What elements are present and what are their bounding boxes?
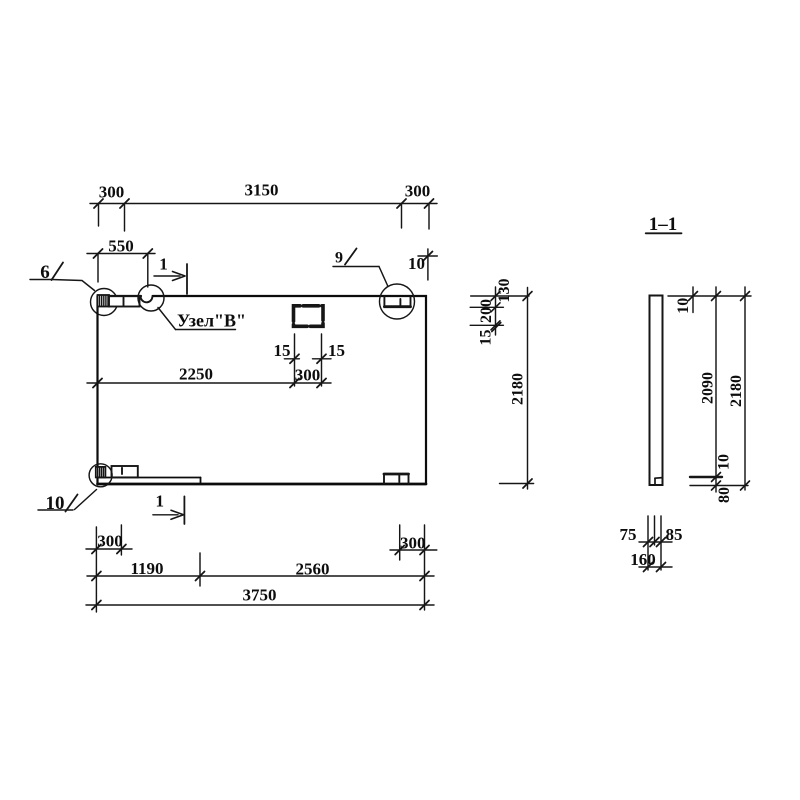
dimension 10 (top right)	[418, 249, 437, 280]
section bottom extension lines 75/85/160	[648, 516, 661, 570]
svg-text:2090: 2090	[700, 372, 717, 404]
svg-text:3150: 3150	[245, 181, 279, 200]
dimension 550	[87, 249, 155, 287]
right side extension lines 130/200/15	[470, 287, 529, 335]
svg-text:2560: 2560	[296, 560, 330, 579]
svg-text:300: 300	[405, 182, 431, 201]
bottom-left embed plate	[112, 466, 138, 477]
svg-text:1: 1	[159, 255, 168, 274]
panel step riser	[200, 478, 202, 485]
section dim line 160	[639, 563, 672, 572]
svg-text:10: 10	[408, 254, 425, 273]
svg-text:300: 300	[400, 534, 426, 553]
svg-text:15: 15	[328, 341, 345, 360]
section dim line 2180	[744, 287, 746, 490]
dim 15 right	[313, 354, 332, 363]
svg-text:200: 200	[478, 299, 495, 323]
dimension 3750	[86, 601, 434, 610]
section cut 1 (top)	[154, 264, 187, 294]
svg-text:85: 85	[666, 525, 683, 544]
callout label 9	[333, 249, 388, 287]
svg-text:2250: 2250	[179, 365, 213, 384]
svg-text:550: 550	[108, 237, 134, 256]
svg-text:80: 80	[716, 487, 733, 503]
section notch extension (thick)	[690, 476, 722, 478]
svg-text:300: 300	[99, 183, 125, 202]
section ticks top	[689, 292, 750, 301]
ticks right cluster	[491, 292, 532, 332]
svg-text:3750: 3750	[243, 586, 277, 605]
svg-text:75: 75	[620, 525, 637, 544]
svg-text:10: 10	[675, 298, 692, 314]
bottom-left hatched anchor block	[96, 467, 106, 478]
top-right anchor bracket	[384, 297, 410, 307]
svg-text:Узел"В": Узел"В"	[177, 311, 246, 331]
section title underline	[646, 232, 682, 234]
svg-text:1–1: 1–1	[649, 214, 678, 235]
section top extension line	[668, 295, 751, 297]
dimension 300 (bottom left)	[86, 545, 132, 554]
section panel strip	[650, 296, 663, 486]
extension lines top chain	[99, 204, 430, 232]
extension lines for 15/300	[295, 334, 322, 386]
dimension 300 (bottom right)	[390, 546, 437, 555]
callout circle 9 (top-right)	[380, 284, 415, 319]
svg-text:300: 300	[97, 532, 123, 551]
svg-text:15: 15	[274, 341, 291, 360]
callout label 10	[38, 490, 97, 515]
section ticks bottom	[712, 473, 750, 491]
dim 15 left	[284, 354, 299, 363]
top chain dimension line 300/3150/300	[90, 199, 437, 208]
bottom-right anchor bracket	[384, 474, 409, 484]
section cut 1 (bottom)	[153, 496, 185, 524]
callout circle 6 (top-left)	[91, 289, 118, 316]
top-left embed plate	[109, 296, 140, 306]
svg-text:2180: 2180	[510, 373, 527, 405]
section bottom extension	[690, 485, 748, 487]
section dim line 10 (top)	[692, 287, 694, 313]
svg-text:10: 10	[46, 493, 65, 514]
svg-text:1190: 1190	[130, 559, 163, 578]
node B callout circle	[138, 285, 164, 311]
svg-text:300: 300	[295, 366, 321, 385]
section dim line 75/85	[639, 538, 672, 547]
dimension 2180 (main view)	[500, 288, 534, 490]
chain dimension 2250/300	[87, 379, 331, 388]
svg-text:2180: 2180	[728, 375, 745, 407]
svg-text:160: 160	[630, 550, 656, 569]
callout circle 10 (bottom-left)	[89, 464, 112, 487]
svg-text:10: 10	[715, 454, 732, 470]
opening (dashed rectangle)	[294, 306, 324, 327]
panel bottom step edge	[98, 477, 201, 479]
node B notch (semicircle in top edge)	[141, 296, 153, 302]
section dim line 2090	[715, 287, 717, 492]
svg-text:130: 130	[496, 279, 513, 303]
top-left hatched anchor block	[98, 295, 110, 307]
node B leader	[158, 308, 236, 330]
svg-text:9: 9	[335, 250, 343, 267]
svg-text:15: 15	[478, 330, 495, 346]
chain dimension 1190/2560	[87, 572, 434, 581]
svg-text:1: 1	[156, 492, 165, 511]
panel outline (main view)	[98, 296, 427, 484]
bottom extension lines	[96, 525, 424, 612]
callout label 6	[30, 262, 95, 291]
